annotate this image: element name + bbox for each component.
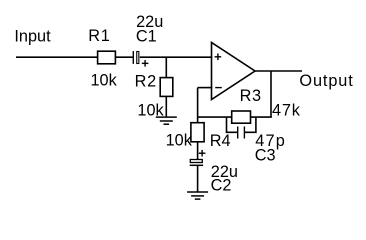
- resistor R4: [191, 123, 204, 142]
- svg-text:R1: R1: [88, 27, 110, 45]
- svg-text:R3: R3: [240, 87, 262, 105]
- wire op-amp output: [255, 70, 302, 72]
- wire R4 to C2: [197, 142, 199, 159]
- capacitor C2 (polarized): [190, 150, 206, 165]
- wire C1 to op-amp + input: [140, 56, 213, 58]
- capacitor C1 (polarized): [133, 51, 148, 67]
- wire input to R1: [16, 56, 98, 58]
- svg-text:10k: 10k: [91, 72, 118, 90]
- svg-text:C1: C1: [136, 27, 157, 45]
- wire C2 to ground: [197, 165, 199, 192]
- ground under C2: [187, 192, 208, 199]
- svg-text:47k: 47k: [272, 102, 301, 120]
- svg-text:R4: R4: [210, 132, 231, 150]
- wire feedback left segment: [198, 116, 232, 118]
- svg-text:10k: 10k: [166, 132, 193, 150]
- wire C3 left stub: [227, 117, 238, 132]
- wire R1 to C1: [115, 56, 132, 58]
- capacitor C3: [238, 127, 245, 139]
- svg-text:R2: R2: [135, 72, 157, 90]
- svg-text:C2: C2: [211, 177, 232, 195]
- op-amp U1: [212, 43, 256, 100]
- resistor R2: [160, 78, 173, 97]
- wire R2 to ground: [165, 96, 167, 117]
- resistor R3: [232, 111, 251, 123]
- svg-text:Input: Input: [14, 27, 51, 45]
- wire branch down to R2: [165, 57, 167, 77]
- wire output branch down to feedback: [270, 71, 272, 117]
- wire C3 right stub: [244, 117, 256, 132]
- wire - input rail down: [197, 88, 199, 123]
- resistor R1: [98, 51, 116, 64]
- wire op-amp - input: [198, 87, 213, 89]
- ground under R2: [156, 117, 177, 124]
- svg-text:C3: C3: [255, 146, 276, 164]
- svg-text:Output: Output: [299, 72, 353, 90]
- wire feedback right segment: [251, 116, 272, 118]
